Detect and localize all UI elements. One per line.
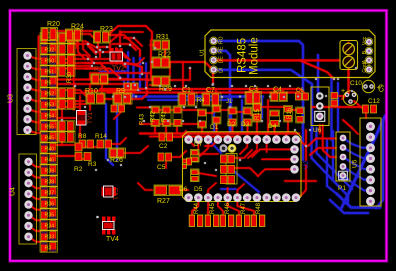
wire blue xyxy=(343,157,371,169)
svg-text:R16: R16 xyxy=(287,107,293,119)
wire red xyxy=(235,168,258,176)
wire red xyxy=(310,148,336,155)
wire red xyxy=(220,109,229,112)
wire red xyxy=(28,87,42,90)
wire red xyxy=(74,65,92,68)
svg-text:R15: R15 xyxy=(255,108,261,120)
via xyxy=(261,120,264,123)
wire blue xyxy=(216,51,230,133)
resistor R6 xyxy=(111,105,125,112)
wire red xyxy=(160,109,163,112)
svg-text:Gnd: Gnd xyxy=(362,63,368,73)
capacitor C9 xyxy=(362,80,385,92)
wire red xyxy=(104,98,114,101)
svg-text:R45: R45 xyxy=(45,135,55,141)
via xyxy=(215,169,218,172)
svg-text:DI: DI xyxy=(219,68,225,73)
wire red xyxy=(57,144,74,147)
module left pins xyxy=(210,36,225,73)
wire red xyxy=(164,49,167,57)
via xyxy=(95,56,98,59)
svg-text:R34: R34 xyxy=(45,223,55,229)
wire red xyxy=(83,41,90,56)
wire red xyxy=(124,146,148,153)
via xyxy=(93,62,96,65)
wire red xyxy=(191,89,194,94)
svg-text:R43: R43 xyxy=(140,113,146,125)
resistor column R33-R55 xyxy=(40,33,58,252)
wire red xyxy=(192,198,198,215)
via xyxy=(294,129,297,132)
wire red xyxy=(138,183,152,190)
resistor R43 xyxy=(140,106,161,127)
wire red xyxy=(189,140,194,146)
diode D4 xyxy=(268,110,280,130)
via xyxy=(135,95,138,98)
wire red xyxy=(57,155,74,158)
wire red xyxy=(154,127,157,134)
svg-text:D5: D5 xyxy=(194,186,203,193)
via xyxy=(279,120,282,123)
svg-text:C3: C3 xyxy=(249,86,258,93)
wire red xyxy=(165,127,168,134)
wire blue xyxy=(212,97,215,133)
wire red xyxy=(150,44,153,47)
wire red xyxy=(110,32,143,42)
resistor R3 xyxy=(84,153,97,169)
svg-text:D4: D4 xyxy=(268,123,277,130)
via xyxy=(212,83,215,86)
wire red xyxy=(57,63,108,71)
wire blue net group xyxy=(100,41,385,213)
wire red xyxy=(85,88,138,91)
wire red xyxy=(85,63,142,74)
wire red xyxy=(129,95,146,99)
wire blue xyxy=(115,104,118,160)
wire red xyxy=(82,158,90,161)
wire red xyxy=(182,89,185,94)
svg-text:R4: R4 xyxy=(197,98,205,104)
resistor R46 xyxy=(220,202,234,226)
module U2 bottom pin row xyxy=(184,193,300,202)
wire red xyxy=(343,120,352,128)
svg-text:R26: R26 xyxy=(110,157,123,164)
diode D3 xyxy=(241,107,252,128)
wire red xyxy=(347,43,350,93)
wire blue xyxy=(221,187,236,190)
diode D2 xyxy=(227,107,237,128)
wire red xyxy=(28,98,42,101)
via xyxy=(87,43,90,46)
wire red xyxy=(114,99,121,119)
via xyxy=(96,46,99,49)
wire red xyxy=(29,215,42,220)
wire red xyxy=(57,106,80,109)
wire red xyxy=(246,126,249,134)
svg-text:R27: R27 xyxy=(157,198,170,205)
diode D6 pads xyxy=(179,158,199,193)
via xyxy=(134,84,137,87)
svg-text:R40: R40 xyxy=(45,157,55,163)
via xyxy=(106,46,109,49)
via xyxy=(267,85,270,88)
svg-text:R5: R5 xyxy=(45,80,52,86)
resistor R48 xyxy=(251,202,265,226)
wire red net group xyxy=(28,26,367,242)
via xyxy=(154,47,157,50)
svg-text:Vcc: Vcc xyxy=(362,36,368,45)
wire red xyxy=(109,44,112,52)
wire red xyxy=(29,205,42,210)
via xyxy=(164,88,167,91)
via xyxy=(239,159,242,162)
resistor column labels xyxy=(45,36,55,251)
capacitor C3 xyxy=(245,86,262,105)
resistor R15 xyxy=(253,103,262,122)
svg-text:R10: R10 xyxy=(85,88,98,95)
wire red xyxy=(105,35,140,56)
wire blue xyxy=(341,116,385,209)
wire red xyxy=(240,88,300,91)
svg-text:Module: Module xyxy=(249,37,261,75)
wire red xyxy=(206,89,209,94)
wire red xyxy=(337,95,344,98)
svg-text:R42: R42 xyxy=(151,110,157,122)
svg-text:R40: R40 xyxy=(45,146,55,152)
wire red xyxy=(44,40,47,48)
via xyxy=(95,169,98,172)
via xyxy=(137,89,140,92)
wire red xyxy=(62,34,94,38)
svg-text:R30: R30 xyxy=(67,71,73,83)
wire red xyxy=(140,123,152,126)
resistor R41 xyxy=(162,106,183,127)
wire red xyxy=(228,198,239,215)
wire red xyxy=(29,183,42,188)
wire red xyxy=(323,125,336,157)
resistor R21 xyxy=(91,66,108,84)
svg-text:R2: R2 xyxy=(74,166,83,173)
wire red xyxy=(218,198,223,215)
svg-text:C7: C7 xyxy=(206,87,215,94)
svg-text:R36: R36 xyxy=(45,201,55,207)
svg-text:RS485: RS485 xyxy=(237,38,249,73)
wire red xyxy=(61,107,64,145)
wire red xyxy=(308,139,336,147)
wire red xyxy=(205,140,218,146)
svg-text:TV1: TV1 xyxy=(87,112,94,124)
via xyxy=(185,85,188,88)
wire blue xyxy=(330,78,333,140)
capacitor C5 xyxy=(157,153,172,171)
capacitor C2 xyxy=(159,133,173,150)
svg-text:R51: R51 xyxy=(45,69,55,75)
connector U4 xyxy=(10,154,37,244)
wire blue xyxy=(260,97,263,119)
resistor R31 xyxy=(153,34,170,50)
svg-text:R3: R3 xyxy=(45,245,52,251)
svg-text:C6: C6 xyxy=(296,88,304,94)
wire blue xyxy=(327,140,337,194)
wire red xyxy=(342,93,349,99)
via xyxy=(337,78,340,81)
resistor pair near x300 xyxy=(296,107,305,123)
wire red xyxy=(137,106,152,109)
wire red xyxy=(187,134,190,140)
via xyxy=(119,45,122,48)
wire blue xyxy=(316,55,320,92)
svg-text:U2: U2 xyxy=(303,160,310,169)
svg-text:R32: R32 xyxy=(45,47,55,53)
svg-text:TV4: TV4 xyxy=(106,236,119,243)
wire red xyxy=(90,73,92,78)
wire red xyxy=(129,90,132,104)
wire red xyxy=(100,87,240,90)
wire red xyxy=(176,127,179,134)
connector P1 xyxy=(336,132,350,192)
wire red xyxy=(300,89,308,96)
via xyxy=(183,106,186,109)
screw terminal J1 xyxy=(340,41,358,70)
resistor R29 xyxy=(152,76,172,93)
wire blue xyxy=(343,148,371,159)
via xyxy=(199,120,202,123)
resistor R42 xyxy=(151,106,172,127)
svg-text:TV3: TV3 xyxy=(113,188,120,200)
wire red xyxy=(101,84,104,93)
wire red xyxy=(251,114,253,117)
svg-text:D3: D3 xyxy=(241,121,250,128)
wire blue xyxy=(206,137,221,153)
svg-text:C5: C5 xyxy=(157,164,166,171)
wire red xyxy=(74,55,94,63)
svg-text:D1: D1 xyxy=(210,124,219,131)
via xyxy=(351,90,354,93)
svg-text:R39: R39 xyxy=(45,168,55,174)
resistor R10 xyxy=(85,88,105,104)
wire red xyxy=(29,226,42,231)
via xyxy=(189,67,192,70)
wire red xyxy=(29,194,42,199)
wire red xyxy=(169,63,172,76)
via xyxy=(124,63,127,66)
wire red xyxy=(57,117,78,120)
module right pins Gnd A B Vcc xyxy=(362,36,373,73)
wire blue xyxy=(126,52,129,97)
svg-text:P1: P1 xyxy=(338,185,346,192)
wire red xyxy=(57,30,92,33)
via xyxy=(297,95,300,98)
via xyxy=(95,51,98,54)
wire red xyxy=(198,173,216,176)
svg-text:RE: RE xyxy=(219,46,225,54)
wire blue xyxy=(317,128,353,189)
svg-text:R21: R21 xyxy=(94,66,107,73)
via xyxy=(61,119,64,122)
wire red xyxy=(150,84,160,87)
wire red xyxy=(180,189,188,192)
wire red xyxy=(287,120,290,134)
transistor TV1 xyxy=(77,111,95,126)
wire blue xyxy=(343,167,371,180)
wire red xyxy=(119,31,122,46)
resistor R9 xyxy=(113,88,132,104)
wire red xyxy=(140,132,299,135)
wire red xyxy=(256,89,259,94)
wire blue xyxy=(343,138,371,148)
svg-text:U3: U3 xyxy=(8,94,15,103)
wire red xyxy=(262,158,295,161)
connector U3 xyxy=(8,49,37,135)
wire blue xyxy=(229,97,232,133)
resistor R24 xyxy=(66,24,84,42)
wire red xyxy=(200,140,208,156)
wire red xyxy=(208,183,216,198)
via xyxy=(239,95,242,98)
resistor R27 xyxy=(154,185,182,205)
wire red xyxy=(256,134,259,140)
wire red xyxy=(85,41,100,57)
svg-text:R22: R22 xyxy=(158,52,171,59)
wire red xyxy=(181,109,198,112)
svg-text:DE: DE xyxy=(219,56,225,64)
wire red xyxy=(197,140,200,149)
wire blue xyxy=(330,200,368,213)
wire red xyxy=(171,109,174,112)
svg-text:R47: R47 xyxy=(241,202,247,214)
via xyxy=(133,37,136,40)
via xyxy=(211,83,214,86)
svg-text:U4: U4 xyxy=(10,187,17,196)
wire red xyxy=(265,134,268,140)
transistor TV3 xyxy=(102,186,121,200)
svg-text:+: + xyxy=(341,88,345,95)
svg-text:R31: R31 xyxy=(156,34,169,41)
via xyxy=(142,62,145,65)
wire blue xyxy=(235,172,259,192)
wire red xyxy=(248,140,257,158)
wire red xyxy=(318,125,321,133)
wire blue xyxy=(132,58,135,97)
via xyxy=(355,67,358,70)
wire red xyxy=(235,150,252,158)
wire red xyxy=(169,68,190,80)
wire red xyxy=(89,84,92,93)
wire red xyxy=(240,140,247,154)
wire red xyxy=(160,123,198,126)
wire red xyxy=(76,40,79,48)
capacitor C4 xyxy=(270,87,288,102)
wire red xyxy=(236,134,239,140)
svg-text:C4: C4 xyxy=(273,87,282,94)
wire red xyxy=(85,69,120,79)
via xyxy=(84,106,87,109)
wire red xyxy=(231,126,234,134)
wire red xyxy=(256,121,259,134)
wire red xyxy=(267,100,270,134)
svg-text:R37: R37 xyxy=(45,190,55,196)
wire red xyxy=(292,109,296,112)
wire red xyxy=(207,198,210,215)
via xyxy=(99,49,102,52)
wire red xyxy=(169,62,213,84)
svg-text:R8: R8 xyxy=(78,133,87,140)
resistor R20 xyxy=(41,21,60,41)
wire blue xyxy=(144,63,147,88)
wire red xyxy=(107,91,300,94)
svg-text:R45: R45 xyxy=(210,202,216,214)
via xyxy=(229,106,232,109)
wire red xyxy=(57,90,86,96)
wire red xyxy=(258,169,295,176)
via xyxy=(159,85,162,88)
wire red xyxy=(285,180,316,183)
wire red xyxy=(246,134,249,140)
connector U5 xyxy=(352,118,382,206)
wire red xyxy=(28,66,42,69)
wire red xyxy=(57,67,96,70)
via xyxy=(289,85,292,88)
svg-text:R33: R33 xyxy=(45,234,55,240)
wire red xyxy=(56,33,59,140)
wire red xyxy=(206,112,213,115)
pad special gray xyxy=(220,144,228,152)
wire blue xyxy=(343,176,371,191)
svg-text:R44: R44 xyxy=(194,202,200,214)
via xyxy=(129,44,132,47)
via xyxy=(87,58,90,61)
wire red xyxy=(305,130,308,160)
wire blue xyxy=(106,104,113,165)
pad special yellow xyxy=(228,144,236,152)
via xyxy=(107,159,110,162)
wire red xyxy=(172,131,186,137)
svg-text:R14: R14 xyxy=(95,133,107,140)
svg-text:R23: R23 xyxy=(100,26,113,33)
svg-text:J1: J1 xyxy=(226,99,233,105)
wire red xyxy=(79,96,82,138)
resistor R14 xyxy=(95,133,112,148)
svg-text:R20: R20 xyxy=(47,21,60,28)
wire red xyxy=(106,26,152,40)
svg-text:C1: C1 xyxy=(182,87,191,94)
svg-text:C2: C2 xyxy=(159,143,168,150)
wire red xyxy=(182,62,185,89)
svg-text:U5: U5 xyxy=(352,159,359,168)
via xyxy=(112,95,115,98)
via xyxy=(254,85,257,88)
svg-text:C12: C12 xyxy=(368,98,380,105)
transistor TV2 xyxy=(110,48,125,73)
svg-text:D6: D6 xyxy=(179,186,188,193)
via xyxy=(127,85,130,88)
via xyxy=(174,85,177,88)
wire blue xyxy=(240,100,243,131)
wire red xyxy=(312,105,361,108)
wire red xyxy=(112,44,136,50)
resistor R8 xyxy=(78,133,94,148)
capacitor C11 xyxy=(331,93,338,107)
via xyxy=(145,87,148,90)
wire blue xyxy=(312,128,349,203)
resistor R23 xyxy=(94,26,113,43)
capacitor C1 xyxy=(178,87,197,106)
via xyxy=(305,145,308,148)
wire red xyxy=(88,46,96,54)
capacitor C10 xyxy=(341,80,362,105)
capacitor C6 xyxy=(296,88,309,100)
wire red xyxy=(57,35,78,38)
